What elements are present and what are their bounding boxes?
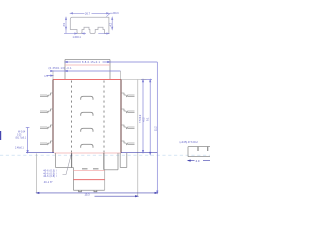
centerline horizontal (cyan dashed) <box>0 154 210 156</box>
bottom body bottom edge <box>73 189 104 191</box>
svg-text:0.25: 0.25 <box>17 134 22 136</box>
right height dimension <box>142 80 143 153</box>
bottom red line <box>73 179 104 181</box>
slot edge left dark <box>71 153 73 168</box>
top view right dimension <box>112 17 113 29</box>
main view top protrusion <box>65 60 110 80</box>
left small dimension <box>26 128 30 153</box>
leader text block <box>43 169 57 184</box>
left extension above body <box>52 71 54 80</box>
slot edge right dark <box>103 153 105 170</box>
side view tick 1 <box>197 147 199 151</box>
navy extension right of body bottom <box>121 152 157 154</box>
svg-text:9.1: 9.1 <box>147 117 150 121</box>
navy extension left of body bottom <box>26 152 54 154</box>
left pin 2 <box>40 109 54 113</box>
top view top dimension <box>70 13 109 14</box>
bottom body left edge <box>72 168 74 191</box>
left annotation text block <box>15 131 27 149</box>
body bottom pink line <box>54 152 121 154</box>
arch slot 1 <box>81 96 93 99</box>
svg-text:(6.35±0.13) -0.1: (6.35±0.13) -0.1 <box>49 67 73 70</box>
hidden dashed line left <box>71 81 73 153</box>
svg-text:15.3: 15.3 <box>85 193 91 197</box>
side view outline <box>188 147 210 157</box>
top view left dimension <box>65 17 66 33</box>
right shoulder extension <box>120 71 122 80</box>
svg-text:(B1.7)±0.1: (B1.7)±0.1 <box>16 138 27 140</box>
bottom dimension A <box>37 192 158 193</box>
bottom section left foot <box>56 153 74 168</box>
svg-text:40-6 (0.8) /: 40-6 (0.8) / <box>43 175 57 178</box>
body left edge <box>52 80 54 154</box>
top edge gray extension right <box>121 79 147 81</box>
svg-text:1.5: 1.5 <box>44 75 48 78</box>
svg-text:40-1 8°: 40-1 8° <box>44 181 53 184</box>
right pin 1 <box>121 93 135 97</box>
top view outline <box>70 17 109 33</box>
side view bottom dimension <box>188 160 210 161</box>
small dark dashes <box>82 168 99 170</box>
arch slot 2 <box>81 112 93 115</box>
svg-text:7.5±0.2: 7.5±0.2 <box>139 114 142 123</box>
svg-text:4.2: 4.2 <box>109 22 112 26</box>
svg-text:26.7: 26.7 <box>85 12 91 16</box>
left pin 4 <box>40 141 54 145</box>
leader arrowhead <box>71 154 73 157</box>
svg-text:W 0.64: W 0.64 <box>18 131 26 133</box>
right pin 2 <box>121 109 135 113</box>
svg-text:3.9: 3.9 <box>63 22 66 26</box>
bottom body right edge <box>104 170 106 190</box>
leader line to slot <box>63 154 72 174</box>
pin tip extension line right <box>137 80 139 197</box>
main body top red line <box>53 79 121 81</box>
top view right step dimension <box>98 33 109 34</box>
left pin 3 <box>40 125 54 129</box>
body right edge <box>120 80 122 154</box>
left bottom extension line <box>36 154 38 194</box>
bottom pink line <box>73 170 104 172</box>
right pin 3 <box>121 125 135 129</box>
hidden dashed line right <box>103 81 105 153</box>
bottom dimension B <box>95 196 138 197</box>
side view tick 2 <box>207 147 209 151</box>
main top width dimension <box>65 61 158 193</box>
cut-off symbol left edge <box>0 131 1 140</box>
svg-text:2.46±0.1: 2.46±0.1 <box>15 147 24 149</box>
svg-text:8.8-0.15+0.1: 8.8-0.15+0.1 <box>82 60 100 64</box>
left pin 1 <box>40 93 54 97</box>
secondary width dimension <box>51 70 152 154</box>
top view corner radius leader <box>106 13 113 17</box>
top view peg dimension <box>64 33 86 34</box>
right pin 4 <box>121 141 135 145</box>
bottom tabs <box>79 190 97 192</box>
protrusion inner pink line <box>65 64 110 66</box>
wall thickness arrow and text <box>47 75 54 76</box>
arch slot 4 <box>81 144 93 147</box>
svg-text:R0.3: R0.3 <box>113 12 119 15</box>
svg-text:1.6±0.1: 1.6±0.1 <box>73 36 82 39</box>
svg-text:(+0.05) 47.6 ±0.2: (+0.05) 47.6 ±0.2 <box>180 141 199 144</box>
svg-text:+0.2: +0.2 <box>144 117 146 122</box>
svg-text:4.0: 4.0 <box>196 159 200 163</box>
svg-text:11.2: 11.2 <box>154 126 157 131</box>
right foot <box>120 153 127 168</box>
arch slot 3 <box>81 128 93 131</box>
bottom right notch <box>104 153 118 170</box>
